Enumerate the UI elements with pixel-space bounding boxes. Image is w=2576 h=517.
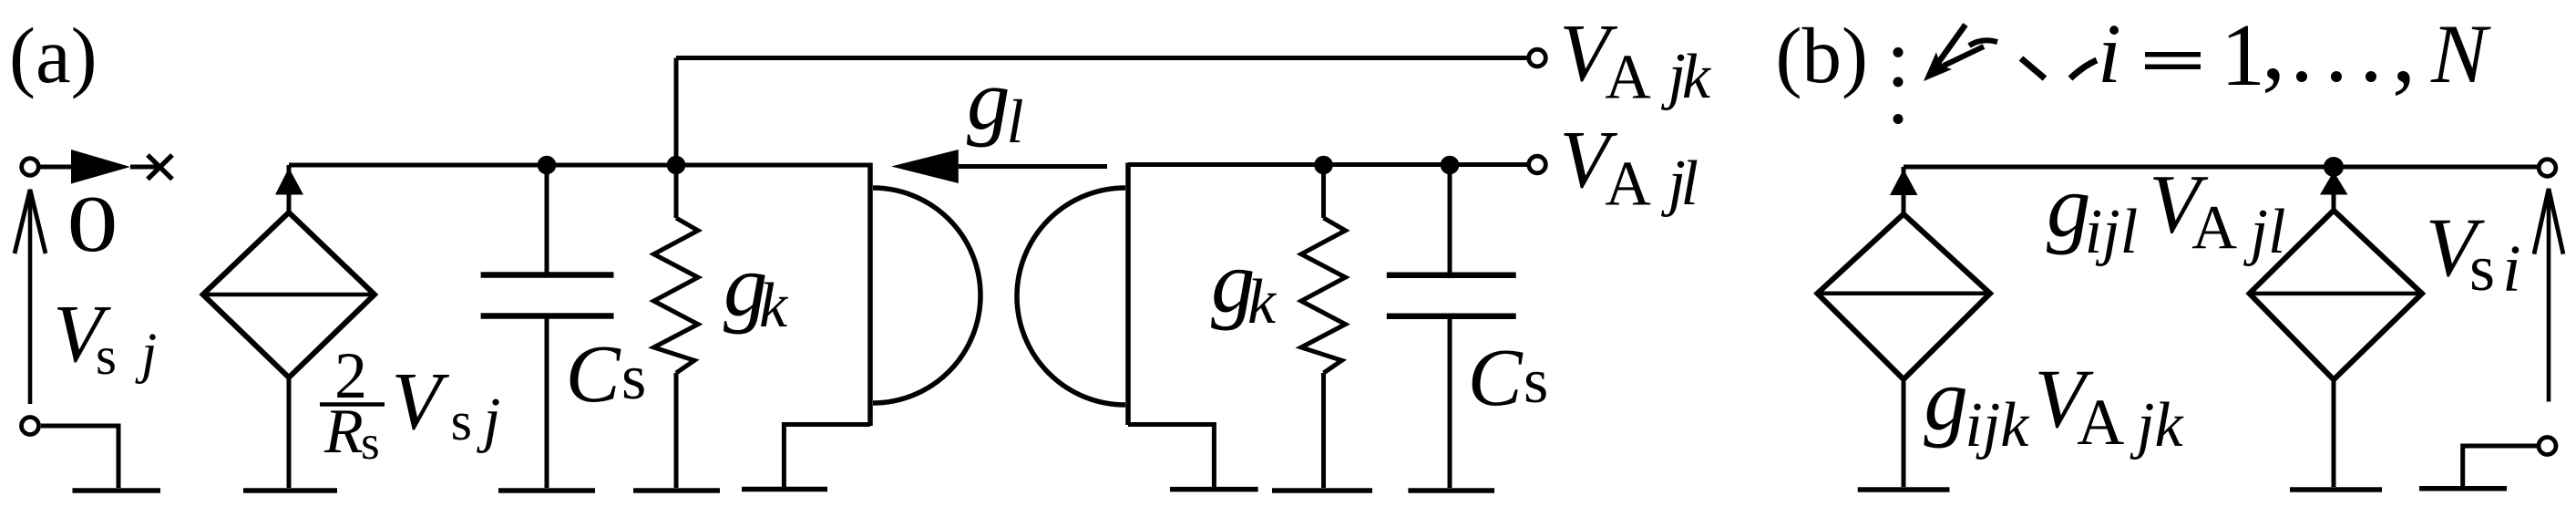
wire up to VAjk rail [674, 58, 679, 166]
rail part b [1904, 165, 2539, 170]
fraction bar [320, 402, 385, 407]
wire Vsi bottom stub [2463, 446, 2537, 486]
voltage arrow Vsi shaft [2547, 189, 2551, 402]
ground under R1 [633, 488, 720, 493]
source gijl diamond [2250, 211, 2422, 380]
rail VAjk [676, 56, 1528, 60]
device D2 arc [1017, 188, 1125, 405]
resistor gk left zigzag [654, 218, 699, 373]
source gijl diamond midline [2250, 292, 2422, 296]
wire gijk to ground [1902, 379, 1906, 487]
source gijk diamond wire top [1902, 167, 1906, 214]
device D1 plate line [867, 163, 873, 427]
source gijk diamond [1817, 214, 1990, 379]
svg-text:j: j [476, 384, 500, 453]
svg-text:s: s [621, 343, 646, 413]
device D2 cathode step [1128, 425, 1214, 488]
svg-text:N: N [2430, 7, 2491, 100]
continuation arrow hook [1969, 40, 1997, 46]
node Vsj bottom terminal [22, 418, 39, 435]
svg-text:,: , [2262, 0, 2285, 99]
coupling arrow gl line [959, 164, 1107, 169]
wire zero-current stub [40, 165, 72, 170]
terminal Vsi top [2539, 160, 2556, 177]
continuation arrow main stroke [1931, 25, 1965, 73]
capacitor C1 bottom wire [545, 316, 549, 489]
svg-text:l: l [1007, 87, 1024, 156]
junction dot C1 [538, 156, 557, 175]
coupling arrow gl head [891, 150, 959, 183]
svg-text:1: 1 [2221, 6, 2265, 105]
junction dot R1 [667, 156, 686, 175]
svg-text:A: A [2191, 192, 2237, 262]
device D2 plate line [1125, 163, 1131, 426]
svg-text:ijl: ijl [2085, 197, 2138, 267]
svg-text:s: s [361, 417, 380, 470]
svg-text:k: k [1247, 267, 1278, 337]
source arrowhead up [275, 168, 303, 195]
svg-text:C: C [1468, 333, 1524, 423]
svg-text:A: A [1605, 149, 1651, 219]
vertical dots [1894, 47, 1904, 57]
svg-text:j: j [135, 323, 157, 385]
device D1 cathode step [784, 425, 870, 488]
continuation arrow tick [1944, 47, 1984, 66]
voltage arrow Vsj barbs [15, 190, 46, 253]
junction dot R2 [1314, 156, 1333, 175]
svg-text:(a): (a) [9, 11, 97, 99]
ground under D2 [1170, 487, 1258, 492]
resistor gk left wire bottom [674, 373, 679, 488]
svg-text:jl: jl [2243, 197, 2286, 267]
capacitor C1 top wire [545, 165, 549, 275]
terminal Vsi bottom [2539, 438, 2556, 455]
svg-text:R: R [323, 397, 364, 467]
svg-text:C: C [566, 329, 621, 419]
junction dot C2 [1441, 156, 1460, 175]
resistor gk left wire top [674, 165, 679, 218]
dependent source 2/Rs Vsj diamond [203, 212, 375, 377]
svg-text:g: g [1924, 351, 1968, 449]
svg-text:s: s [96, 326, 117, 386]
ground under diamond [243, 488, 337, 493]
source gijk diamond midline [1817, 292, 1990, 296]
ground under C1 [498, 488, 595, 493]
capacitor C2 top wire [1448, 165, 1452, 275]
source gijk arrowhead [1890, 170, 1918, 196]
ground under D1 [742, 487, 827, 492]
svg-text:i: i [2502, 231, 2520, 305]
voltage arrow Vsj shaft [28, 190, 33, 404]
svg-text:A: A [2077, 386, 2124, 459]
svg-text:s: s [451, 391, 472, 451]
continuation arrow head [1924, 52, 1952, 81]
svg-text:,: , [2392, 0, 2416, 102]
wire gijl to ground [2332, 379, 2336, 487]
svg-text:(b): (b) [1776, 11, 1868, 99]
wire to cross [130, 165, 162, 170]
svg-text:k: k [1682, 42, 1712, 112]
svg-text:l: l [1681, 149, 1699, 219]
diamond midline [203, 293, 375, 297]
ground under gijk [1858, 487, 1950, 492]
svg-text:V: V [392, 357, 450, 447]
svg-text:ijk: ijk [1965, 390, 2030, 460]
voltage arrow Vsi barbs [2534, 189, 2563, 254]
dash 2 [2070, 60, 2097, 78]
ground bottom right [2419, 486, 2507, 491]
terminal VAjl [1529, 156, 1546, 173]
ground under C2 [1408, 488, 1494, 493]
cross mark [148, 155, 172, 180]
svg-text:g: g [967, 51, 1011, 148]
source gijl arrowhead [2320, 171, 2348, 195]
svg-text:A: A [1605, 42, 1651, 112]
capacitor C1 plates [481, 275, 614, 316]
ground under R2 [1272, 488, 1372, 493]
device D1 arc [873, 188, 980, 403]
resistor gk right zigzag [1301, 218, 1346, 373]
resistor gk right wire bottom [1321, 373, 1326, 488]
resistor gk right wire top [1321, 165, 1326, 218]
source gijl wire top [2332, 177, 2336, 211]
ground under gijl [2290, 487, 2382, 492]
rail VAjl right [1128, 162, 1528, 167]
wire diamond to ground [287, 377, 292, 488]
junction dot gijl [2324, 157, 2344, 177]
terminal VAjk [1529, 49, 1546, 67]
capacitor C2 bottom wire [1448, 316, 1452, 488]
rail node A (left rail) [289, 163, 870, 168]
wire diamond to rail [287, 165, 292, 212]
svg-text:0: 0 [67, 181, 118, 269]
capacitor C2 plates [1387, 275, 1516, 316]
current arrow 0 [71, 150, 130, 184]
wire bottom stub [41, 426, 118, 488]
svg-text:i: i [2098, 7, 2121, 101]
node Vsj top terminal [22, 159, 39, 176]
svg-text:jk: jk [2130, 390, 2184, 460]
svg-text:s: s [1524, 346, 1548, 417]
ground bottom-left [73, 488, 161, 493]
svg-text:s: s [2469, 232, 2495, 305]
dash 1 [2021, 58, 2045, 78]
svg-text:k: k [759, 271, 789, 341]
